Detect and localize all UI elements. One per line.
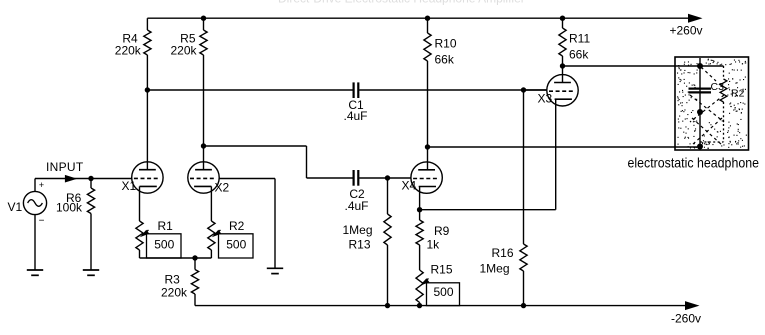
resistor R5 (200, 30, 207, 55)
value .4uF (C2) (344, 199, 368, 213)
node: rail-R11 junction (560, 16, 565, 21)
potentiometer R15 (416, 270, 460, 306)
wire X4 cathode node (419, 187, 421, 221)
svg-text:1Meg: 1Meg (480, 262, 510, 276)
svg-text:.4uF: .4uF (344, 199, 368, 213)
label R9 (434, 224, 450, 238)
svg-text:−: − (39, 216, 45, 227)
resistor R9 (416, 220, 423, 245)
wire -260v bottom rail (195, 305, 686, 307)
net label +260v (670, 24, 703, 38)
label R15 (431, 263, 453, 277)
wire X2 plate tap down-over (204, 146, 353, 178)
wire X4 plate node to headphone bottom (428, 146, 701, 148)
wire R2 bottom (195, 250, 211, 258)
label R13 (348, 238, 370, 252)
headphone enclosure (stippled stators) (675, 57, 749, 150)
wire R5 to X2 plate (203, 55, 205, 170)
ground (V1) (27, 270, 43, 275)
triode X3 (547, 75, 578, 106)
svg-text:X2: X2 (215, 181, 230, 195)
resistor R13 (384, 214, 391, 245)
svg-text:500: 500 (433, 285, 453, 299)
value .4uF (C1) (343, 109, 367, 123)
label V1 (8, 200, 23, 214)
svg-text:V1: V1 (8, 200, 23, 214)
node: rail-R10 junction (425, 16, 430, 21)
value 1Meg (R13) (342, 223, 372, 237)
node: input / R6 junction (88, 176, 93, 181)
svg-text:500: 500 (154, 238, 174, 252)
svg-text:X3: X3 (538, 92, 553, 106)
wire headphone inner loop (700, 66, 724, 142)
wire rail to R10 (427, 18, 429, 33)
label INPUT (46, 160, 84, 174)
wire X3 grid node to R16 (523, 90, 525, 244)
wire X1 cathode to R1 (139, 186, 141, 221)
wire R10 to X4 plate (427, 61, 429, 170)
svg-text:R9: R9 (434, 224, 450, 238)
svg-text:R15: R15 (431, 263, 453, 277)
label X3 (538, 92, 553, 106)
svg-text:220k: 220k (170, 44, 197, 58)
node: headphone tap on X4 plate line (425, 144, 430, 149)
wire headphone diaphragm line (699, 58, 701, 150)
svg-text:R11: R11 (569, 32, 590, 46)
svg-text:1k: 1k (427, 238, 441, 252)
wire +260v top rail (147, 17, 689, 19)
net label -260v (671, 312, 701, 326)
label R5 (180, 32, 196, 46)
svg-text:electrostatic headphone: electrostatic headphone (628, 155, 760, 171)
ground (R6) (83, 270, 99, 275)
label R3 (165, 273, 181, 287)
label R10 (435, 37, 457, 51)
wire rail to R5 (203, 18, 205, 30)
svg-text:1Meg: 1Meg (342, 223, 372, 237)
resistor R2 (headphone) (720, 79, 727, 102)
value 220k (R4) (115, 44, 142, 58)
node: rail-R5 junction (201, 16, 206, 21)
value 220k (R5) (170, 44, 197, 58)
resistor R3 (191, 270, 198, 295)
wire input node to R6 (90, 179, 92, 189)
wire C1 to X3 grid (359, 89, 547, 91)
node: R11-X3 plate junction (560, 63, 565, 68)
svg-text:X1: X1 (122, 179, 137, 193)
wire R6 to ground (90, 214, 92, 271)
svg-text:220k: 220k (161, 286, 188, 300)
node: rail-R15 junction (417, 303, 422, 308)
svg-text:-260v: -260v (671, 312, 701, 326)
svg-text:R16: R16 (492, 246, 514, 260)
value 100k (R6) (56, 201, 83, 215)
polarity + (V1) (39, 180, 44, 190)
triode X1 (132, 162, 163, 193)
wire input to X1 grid (91, 178, 132, 180)
value 1k (R9) (427, 238, 441, 252)
wire V1 bottom to ground (34, 215, 36, 270)
node: headphone top (697, 63, 703, 69)
label C2 (349, 187, 365, 201)
node: X4 grid / R13 junction (385, 175, 390, 180)
svg-text:R1: R1 (158, 219, 174, 233)
node: rail-R16 junction (521, 303, 526, 308)
polarity - (V1) (39, 216, 45, 227)
svg-text:220k: 220k (115, 44, 142, 58)
wire X4 cathode to X3 cathode (420, 99, 556, 210)
wire R4 to X1 plate (146, 55, 148, 170)
resistor R4 (144, 30, 151, 55)
capacitor C1 (354, 82, 359, 98)
resistor R11 (559, 28, 566, 56)
node: C2 tap on X2 plate line (201, 143, 206, 148)
node: headphone bottom (697, 144, 703, 150)
resistor R6 (87, 188, 94, 214)
wire X3 plate node to headphone top (563, 65, 701, 67)
value 66k (R11) (569, 48, 589, 62)
node: C1 tap on X1 plate line (145, 87, 150, 92)
svg-text:66k: 66k (435, 53, 455, 67)
wire rail to R4 (146, 18, 148, 30)
svg-text:R13: R13 (348, 238, 370, 252)
node: rail-R13 junction (385, 303, 390, 308)
svg-text:+260v: +260v (670, 24, 703, 38)
wire R1 bottom (140, 250, 196, 258)
wire R9 to R15 (419, 245, 421, 270)
node: X4 cathode junction (417, 207, 422, 212)
cropped title text (278, 0, 525, 6)
power arrow -260v (685, 301, 700, 310)
wire X1 plate to C1 (147, 89, 352, 91)
label R6 (66, 191, 82, 205)
label X2 (215, 181, 230, 195)
caption electrostatic headphone (628, 155, 760, 171)
input arrow (65, 175, 77, 183)
label R2 (229, 219, 245, 233)
wire R15 to rail (419, 303, 421, 306)
svg-text:R10: R10 (435, 37, 457, 51)
label R4 (122, 32, 138, 46)
svg-text:+: + (39, 180, 44, 190)
value 66k (R10) (435, 53, 455, 67)
triode X4 (411, 162, 442, 193)
svg-text:R2: R2 (229, 219, 245, 233)
wire R16 to rail (523, 271, 525, 306)
label X4 (402, 179, 417, 193)
dashed coupling marks (headphone) (690, 67, 724, 145)
node: tail junction (R1/R2/R3) (192, 255, 197, 260)
wire X2 cathode to R2 (210, 186, 212, 221)
svg-text:INPUT: INPUT (46, 160, 84, 174)
svg-text:R2: R2 (731, 88, 745, 100)
label R1 (158, 219, 174, 233)
resistor R16 (520, 244, 527, 271)
wire tail to R3 (194, 258, 196, 270)
wire V1 top to input node (35, 179, 91, 192)
wire X3 grid lead (524, 89, 547, 91)
label R16 (492, 246, 514, 260)
wire X2 grid to ground (219, 179, 275, 269)
resistor R10 (424, 33, 431, 61)
wire C2 to X4 grid (359, 177, 411, 179)
power arrow +260v (688, 14, 703, 23)
svg-text:.4uF: .4uF (343, 109, 367, 123)
wire R3 to -260v rail (194, 294, 196, 306)
svg-text:100k: 100k (56, 201, 83, 215)
label X1 (122, 179, 137, 193)
label R11 (569, 32, 590, 46)
wire rail to R11 (562, 18, 564, 28)
wire X4 grid node to R13 (387, 178, 389, 214)
value 1Meg (R16) (480, 262, 510, 276)
potentiometer R1 (136, 221, 181, 258)
value 220k (R3) (161, 286, 188, 300)
node: headphone middle (697, 109, 703, 115)
capacitor C2 (354, 170, 359, 186)
potentiometer R2 (208, 221, 253, 258)
label C1 (348, 98, 364, 112)
source V1 (23, 191, 46, 214)
svg-text:X4: X4 (402, 179, 417, 193)
svg-text:R3: R3 (165, 273, 181, 287)
node: X3 grid / R16 junction (521, 87, 526, 92)
wire R11 to X3 plate (562, 56, 564, 83)
svg-text:500: 500 (226, 238, 246, 252)
ground (X2 grid) (267, 268, 283, 273)
svg-text:66k: 66k (569, 48, 589, 62)
wire R13 to rail (387, 245, 389, 306)
triode X2 (188, 162, 219, 193)
svg-text:Direct-Drive Electrostatic Hea: Direct-Drive Electrostatic Headphone Amp… (278, 0, 525, 6)
label C3 (711, 81, 725, 93)
capacitor C3 (headphone) (689, 89, 712, 93)
label R2 (headphone) (731, 88, 745, 100)
